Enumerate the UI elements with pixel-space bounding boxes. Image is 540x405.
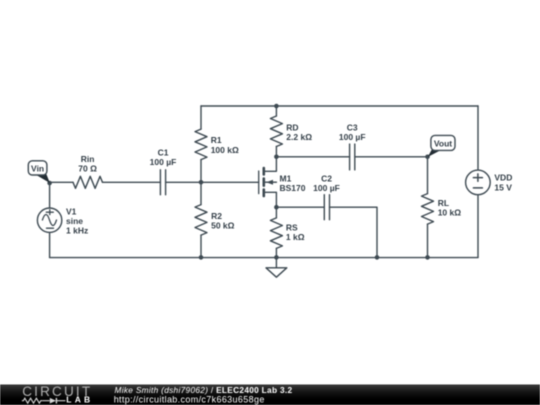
svg-text:R1: R1: [211, 135, 222, 145]
label C1 value: [150, 148, 177, 168]
capacitor C3: [350, 144, 355, 170]
node source: [274, 205, 279, 210]
voltage source V1: [37, 208, 61, 232]
resistor R2: [195, 182, 207, 257]
svg-text:RD: RD: [286, 123, 298, 133]
svg-text:C2: C2: [321, 173, 332, 183]
resistor Rin: [73, 176, 103, 188]
wire bottom rail: [50, 257, 478, 259]
wire V1 top lead: [49, 183, 51, 208]
svg-text:R2: R2: [211, 211, 222, 221]
svg-text:70 Ω: 70 Ω: [78, 164, 97, 174]
wire source to C2: [276, 206, 324, 208]
label RL value: [438, 198, 462, 218]
node C2 bottom: [375, 255, 380, 260]
svg-text:15 V: 15 V: [494, 182, 512, 192]
capacitor C2: [324, 195, 329, 220]
node Vout junction: [425, 155, 430, 160]
CircuitLab logo: [22, 384, 93, 405]
capacitor C1: [160, 170, 165, 195]
wire C2 to bottom rail: [330, 207, 378, 257]
label R1 value: [211, 135, 239, 155]
wire VDD bottom lead: [477, 195, 479, 258]
svg-text:V1: V1: [66, 207, 77, 217]
node R2 bottom: [199, 255, 204, 260]
svg-text:sine: sine: [66, 216, 83, 226]
svg-text:50 kΩ: 50 kΩ: [211, 221, 235, 231]
label C2 value: [313, 173, 340, 193]
svg-text:Vin: Vin: [31, 164, 44, 174]
transistor M1: [259, 157, 277, 207]
node gate junction: [199, 180, 204, 185]
svg-text:Mike Smith (dshi79062) / ELEC2: Mike Smith (dshi79062) / ELEC2400 Lab 3.…: [115, 385, 293, 395]
footer bar: [0, 385, 540, 405]
node Vout label: [428, 135, 455, 157]
svg-text:1 kHz: 1 kHz: [66, 226, 88, 236]
wire Rin to C1: [103, 181, 161, 183]
svg-text:2.2 kΩ: 2.2 kΩ: [286, 132, 312, 142]
node RD top: [274, 104, 279, 109]
label V1 value: [66, 207, 88, 236]
svg-text:100 µF: 100 µF: [313, 183, 340, 193]
label Rin value: [78, 154, 97, 174]
wire C3 to Vout: [355, 156, 428, 158]
svg-text:VDD: VDD: [494, 173, 512, 183]
label M1 value: [280, 173, 306, 193]
ground: [266, 257, 287, 277]
label RD value: [286, 123, 312, 143]
label C3 value: [339, 123, 366, 143]
svg-text:1 kΩ: 1 kΩ: [286, 232, 305, 242]
resistor RL: [422, 157, 434, 258]
svg-text:100 µF: 100 µF: [150, 157, 177, 167]
svg-text:M1: M1: [280, 173, 292, 183]
resistor R1: [195, 106, 207, 182]
label R2 value: [211, 211, 235, 231]
resistor RS: [270, 207, 282, 257]
label RS value: [286, 222, 305, 242]
resistor RD: [270, 106, 282, 157]
svg-text:10 kΩ: 10 kΩ: [438, 208, 462, 218]
node Vin junction: [47, 181, 52, 186]
wire V1 bottom lead: [49, 232, 51, 257]
node drain: [274, 155, 279, 160]
node Vin label: [28, 161, 50, 183]
svg-text:RL: RL: [438, 198, 449, 208]
svg-text:100 kΩ: 100 kΩ: [211, 145, 239, 155]
wire drain to C3: [276, 156, 349, 158]
svg-text:RS: RS: [286, 222, 298, 232]
svg-text:C1: C1: [158, 148, 169, 158]
svg-text:Vout: Vout: [434, 138, 452, 148]
node RS bottom: [274, 255, 279, 260]
svg-text:C3: C3: [347, 123, 358, 133]
wire C1 to gate: [166, 181, 259, 183]
svg-text:http://circuitlab.com/c7k663u6: http://circuitlab.com/c7k663u658ge: [114, 395, 265, 405]
svg-text:100 µF: 100 µF: [339, 132, 366, 142]
label VDD value: [494, 173, 512, 193]
svg-text:Rin: Rin: [81, 154, 95, 164]
wire Vin to Rin: [50, 181, 73, 183]
svg-text:LAB: LAB: [66, 395, 93, 405]
svg-text:BS170: BS170: [280, 183, 306, 193]
wire VDD top lead: [477, 106, 479, 170]
voltage source VDD: [466, 170, 491, 195]
node RL bottom: [425, 255, 430, 260]
wire top rail: [201, 105, 478, 107]
